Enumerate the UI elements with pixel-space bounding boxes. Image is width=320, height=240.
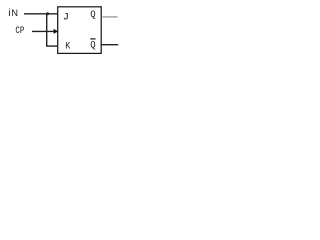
svg-text:J: J — [63, 12, 69, 24]
wire branch vertical from junction down — [46, 14, 48, 46]
wire Q-bar output — [101, 44, 118, 46]
svg-text:K: K — [65, 40, 70, 51]
svg-text:Q: Q — [90, 40, 95, 52]
svg-text:Q: Q — [90, 9, 95, 21]
wire branch horizontal to K input — [46, 45, 58, 47]
svg-text:CP: CP — [15, 25, 24, 37]
wire Q output (faint) — [103, 16, 118, 18]
wire IN horizontal to J input — [24, 13, 58, 15]
svg-text:i: i — [8, 7, 10, 19]
wire CP horizontal — [32, 30, 55, 32]
overbar of Q-bar — [90, 38, 95, 40]
arrowhead CP clock input — [54, 29, 59, 34]
flip-flop U1 box — [58, 7, 101, 54]
svg-text:N: N — [11, 8, 18, 18]
junction dot on IN wire — [46, 12, 49, 15]
